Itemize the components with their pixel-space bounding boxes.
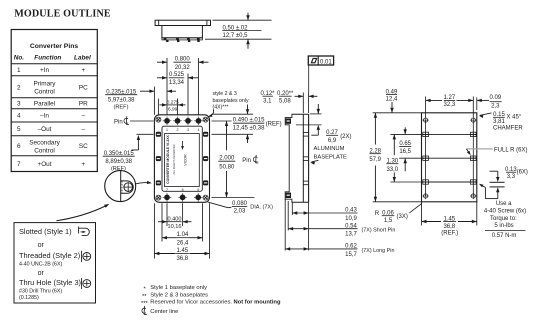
extension lines right of front view [212,113,254,115]
svg-text:12,7 ±0,5: 12,7 ±0,5 [223,33,249,39]
svg-text:3: 3 [187,128,189,132]
svg-text:Use a: Use a [496,201,512,207]
front view corner holes [156,117,161,122]
svg-text:50,80: 50,80 [219,164,235,170]
svg-text:ALUMINUM: ALUMINUM [314,146,345,152]
detail view circle [105,171,136,202]
svg-text:PC: PC [79,85,88,92]
extension lines below front view [153,203,155,258]
svg-text:Label: Label [74,54,91,61]
svg-text:6,99: 6,99 [168,107,178,113]
dimension 0.50 +-.02 module height [213,19,272,21]
svg-text:**: ** [142,294,147,300]
svg-text:2,03: 2,03 [234,209,246,215]
slotted icon [79,227,90,236]
side view baseplate surface lines [302,114,304,202]
svg-text:5: 5 [197,188,199,192]
svg-text:baseplates only: baseplates only [213,98,249,104]
svg-text:Not for mounting: Not for mounting [234,300,281,306]
front view bottom pins 7 6 5 [165,195,170,200]
svg-text:(REF): (REF) [266,121,282,127]
svg-text:6,9: 6,9 [328,138,337,144]
svg-text:26,4: 26,4 [177,240,189,246]
svg-text:10,16: 10,16 [168,224,182,230]
dimension 1.45 REF below baseplate view [421,202,423,226]
baseplate view corner holes [424,118,428,122]
svg-text:#30 Drill Thru (6X): #30 Drill Thru (6X) [19,289,62,295]
svg-text:(3X): (3X) [397,214,408,220]
front view side mounting slots [156,132,161,137]
svg-text:FULL R (6X): FULL R (6X) [494,148,527,154]
svg-text:(6X): (6X) [517,169,528,175]
dimension 0.54 short pin [288,228,357,230]
extension lines below side view [284,199,286,250]
svg-text:+: + [81,67,85,74]
baseplate view hole columns [425,120,427,196]
flatness frame leader [308,65,310,93]
dimension 0.27 2X slot offset [310,113,322,115]
svg-text:X 45°: X 45° [507,114,522,120]
dimension 0.62 long pin [285,248,357,250]
svg-text:5,97±0,38: 5,97±0,38 [108,97,135,103]
svg-text:Threaded (Style 2): Threaded (Style 2) [19,251,80,260]
svg-text:Thru Hole (Style 3): Thru Hole (Style 3) [19,278,81,287]
svg-text:style 2 & 3: style 2 & 3 [213,91,237,97]
svg-text:Control: Control [34,148,55,155]
svg-text:3,3: 3,3 [507,174,516,180]
svg-text:BASEPLATE: BASEPLATE [314,154,348,160]
svg-text:***: *** [141,301,149,307]
svg-text:Reserved for Vicor accessories: Reserved for Vicor accessories. [150,300,232,306]
leader arrow from styles box to detail circle [57,206,107,221]
detail view hidden slot lines [121,181,123,193]
svg-text:13,34: 13,34 [169,80,185,86]
svg-text:1,5: 1,5 [384,218,393,224]
baseplate view slot symbols [423,132,429,136]
svg-text:3,81: 3,81 [493,119,505,125]
detail leader arrow to module [135,183,149,184]
svg-text:(4X)***: (4X)*** [213,104,229,110]
front view label plate [165,134,200,187]
svg-text:+Out: +Out [37,161,51,168]
side view slot ticks on baseplate [303,132,308,134]
svg-text:–In: –In [40,113,49,120]
dimension 1.30 [393,134,395,155]
svg-text:PR: PR [79,101,88,108]
detail view slot outline [121,181,134,193]
svg-text:–: – [82,113,86,120]
svg-text:57,9: 57,9 [369,157,381,163]
mounting styles box [14,223,96,303]
front view top pins 1-4 [165,118,170,123]
svg-text:16,5: 16,5 [399,149,411,155]
dimension 0.49 top to first slot [373,112,422,114]
svg-text:5 in-lbs: 5 in-lbs [494,223,513,229]
svg-text:DIA. (7X): DIA. (7X) [250,204,273,210]
svg-text:Slotted (Style 1): Slotted (Style 1) [19,227,72,236]
svg-text:36,8: 36,8 [443,224,455,230]
svg-text:(REF.): (REF.) [441,230,458,236]
converter pins table frame [11,30,97,172]
svg-text:–: – [82,126,86,133]
svg-text:2: 2 [17,85,21,92]
top profile view flange [155,20,210,25]
svg-text:10,9: 10,9 [345,216,357,222]
svg-text:Torque to:: Torque to: [490,216,517,222]
svg-text:13,7: 13,7 [345,232,357,238]
svg-text:0.800: 0.800 [175,56,191,62]
svg-text:Style 1 baseplate only: Style 1 baseplate only [150,285,207,291]
svg-text:+: + [81,161,85,168]
svg-text:0.62: 0.62 [345,244,357,250]
svg-text:12,45 ±0,38: 12,45 ±0,38 [233,125,265,131]
svg-text:4-40 Screw (6x): 4-40 Screw (6x) [484,209,526,215]
svg-text:Primary: Primary [33,81,56,88]
svg-text:3,1: 3,1 [263,98,272,104]
svg-text:0.490 ±.015: 0.490 ±.015 [233,118,265,124]
svg-text:2: 2 [177,128,179,132]
note leader arrow [209,110,214,117]
svg-text:1: 1 [17,67,21,74]
svg-text:1: 1 [166,128,168,132]
side view top flange slot [286,118,291,123]
dimension 0.080 DIA 7X pin diameter [208,202,228,208]
svg-text:32,3: 32,3 [444,102,456,108]
threaded icon [81,251,83,262]
dimension 0.43 case back [292,212,357,214]
baseplate view slot rows [422,133,477,135]
svg-text:Parallel: Parallel [34,101,55,108]
dimension 1.27 hole columns [425,97,427,118]
chamfer note 0.15 X 45 [480,113,492,115]
full radius note [466,148,492,150]
svg-text:5: 5 [17,126,21,133]
dimension 2.000 pin centerline [226,121,228,150]
svg-text:0.50 ±.02: 0.50 ±.02 [223,25,249,31]
front view label arrow [182,141,184,148]
svg-text:3: 3 [17,101,21,108]
table row lines [11,63,97,65]
baseplate view outline [422,113,477,202]
svg-text:MODULE OUTLINE: MODULE OUTLINE [14,9,111,20]
svg-text:20,32: 20,32 [175,65,191,71]
detail view screw head [124,183,133,192]
top profile bottom strip [162,38,203,40]
svg-text:0.09: 0.09 [489,95,501,101]
svg-text:0.43: 0.43 [345,208,357,214]
svg-text:(0.1285): (0.1285) [19,295,39,301]
side view top and bottom edges [292,113,309,115]
svg-text:4: 4 [17,113,21,120]
svg-text:(7X) Short Pin: (7X) Short Pin [362,228,396,234]
dimension 0.13 screw depth [490,170,498,172]
svg-text:Converter Pins: Converter Pins [30,43,79,50]
svg-text:CHAMFER: CHAMFER [493,126,523,132]
dimension 0.65 [404,127,406,134]
svg-text:Pin: Pin [242,158,251,164]
svg-text:–Out: –Out [38,126,52,133]
svg-text:VICOR: VICOR [184,154,188,166]
top profile pins [166,40,168,42]
svg-text:7: 7 [17,161,21,168]
svg-text:33,0: 33,0 [386,167,398,173]
svg-text:4: 4 [198,128,200,132]
extension lines above front view [166,58,168,115]
svg-text:No.: No. [14,54,25,61]
svg-text:Function: Function [34,54,61,61]
svg-text:6: 6 [182,188,184,192]
svg-text:(2X): (2X) [340,134,351,140]
svg-text:Secondary: Secondary [29,140,60,147]
svg-text:12,4: 12,4 [386,96,398,102]
detail view module edge line [120,171,122,202]
svg-text:CONVERTER MODULE VI-2XX: CONVERTER MODULE VI-2XX [166,134,170,183]
front view case outline [162,126,202,191]
svg-text:+In: +In [40,67,50,74]
front view label small print column [166,134,170,183]
footnote center line [142,308,146,313]
screw note leader [484,188,486,199]
svg-text:0.57 N-m: 0.57 N-m [492,233,517,239]
svg-text:(REF): (REF) [114,105,129,111]
svg-text:Center line: Center line [150,309,178,315]
slot row extension lines left [390,133,421,135]
svg-text:8,89±0,38: 8,89±0,38 [105,159,132,165]
side view bottom flange slot [286,193,291,198]
dimension 1.45 module width [154,253,175,255]
svg-text:Control: Control [34,89,55,96]
svg-text:Style 2 & 3 baseplates: Style 2 & 3 baseplates [150,293,208,299]
svg-text:2.000: 2.000 [219,156,235,162]
dimension 0.09 edge offset [476,98,478,111]
thru hole icon [81,278,83,289]
svg-text:7: 7 [166,188,168,192]
svg-text:15,7: 15,7 [345,252,357,258]
front view module outline [154,115,209,203]
svg-text:36,8: 36,8 [176,256,188,262]
dimension 1.04 case width [162,237,176,239]
svg-text:4-40 UNC-2B (6X): 4-40 UNC-2B (6X) [19,261,63,267]
top profile body [162,26,203,38]
svg-text:SC: SC [79,143,88,150]
side view case profile [285,114,292,202]
dimension 2.28 overall height [373,201,422,203]
top profile flange end caps [158,20,160,25]
svg-text:or: or [38,242,45,249]
svg-text:ALL RIGHTS RESERVED: ALL RIGHTS RESERVED [172,144,176,174]
svg-text:0.525: 0.525 [169,72,185,78]
svg-text:or: or [38,270,45,277]
svg-text:0.01: 0.01 [320,59,332,65]
dimension 0.12 0.20 baseplate lip [302,93,304,114]
svg-text:Pin: Pin [114,119,123,125]
svg-text:5,08: 5,08 [279,98,291,104]
svg-text:2,3: 2,3 [491,103,500,109]
svg-text:0.54: 0.54 [345,223,357,229]
svg-text:6: 6 [17,143,21,150]
flatness control frame [308,56,333,65]
svg-text:R: R [375,211,380,217]
svg-text:(7X) Long Pin: (7X) Long Pin [362,248,395,254]
